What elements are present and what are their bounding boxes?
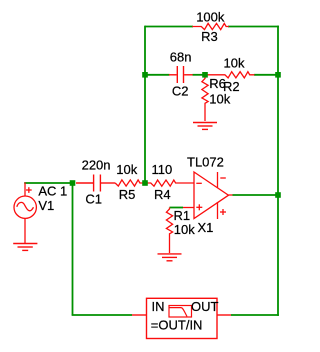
wire op-amp output to right rail <box>233 194 279 196</box>
junction at right rail output <box>275 192 281 198</box>
V1 top lead <box>24 182 26 196</box>
ground below R1 <box>158 254 182 261</box>
resistor R1 10k vertical <box>166 208 172 254</box>
wire right rail vertical <box>277 26 279 316</box>
svg-text:220n: 220n <box>82 158 111 173</box>
svg-text:68n: 68n <box>170 50 192 65</box>
wire top row A from R3 to right rail <box>228 26 279 28</box>
wire bottom row left <box>72 314 132 316</box>
plus sign inside <box>196 206 202 208</box>
wire left rail 2 vertical <box>72 183 74 315</box>
svg-text:10k: 10k <box>174 222 195 237</box>
wire top row A from mid rail to R3 <box>145 26 193 28</box>
V1 circle body <box>14 196 36 218</box>
svg-text:C2: C2 <box>172 83 189 98</box>
junction at C1 input node <box>70 180 76 186</box>
svg-text:R3: R3 <box>201 29 218 44</box>
OUT/IN measurement block <box>132 298 231 338</box>
plus sign bottom power <box>220 211 226 213</box>
ground below V1 <box>13 244 37 251</box>
svg-text:X1: X1 <box>198 220 214 235</box>
svg-text:10k: 10k <box>209 91 230 106</box>
minus sign top power <box>220 177 226 179</box>
wire main row: V1 to C1 junction <box>24 182 72 184</box>
capacitor C2 68n <box>169 66 193 83</box>
junction at C2/R6/R2 node <box>202 72 208 78</box>
junction at right rail row B <box>275 72 281 78</box>
svg-text:TL072: TL072 <box>187 154 224 169</box>
svg-text:R5: R5 <box>119 187 136 202</box>
wire op-amp plus input to R1 <box>170 207 184 209</box>
svg-text:10k: 10k <box>116 162 137 177</box>
svg-text:IN: IN <box>152 299 165 314</box>
op-amp X1 TL072 <box>183 172 233 219</box>
wire row B: C2 to junction <box>193 74 206 76</box>
minus sign inside <box>196 182 202 184</box>
svg-text:R1: R1 <box>174 208 191 223</box>
resistor R6 10k vertical <box>202 75 208 121</box>
resistor R4 110 <box>145 180 194 186</box>
block icon: transfer curve <box>169 306 192 318</box>
svg-text:10k: 10k <box>224 55 245 70</box>
svg-text:AC 1: AC 1 <box>38 184 67 199</box>
V1 sine symbol <box>17 202 34 210</box>
wire row B: R2 to right rail <box>254 74 278 76</box>
wire bottom row right <box>231 314 279 316</box>
wire left mid rail vertical <box>144 26 146 183</box>
wire row B: rail to C2 <box>145 74 170 76</box>
V1 bottom lead <box>24 218 26 243</box>
AC source V1 <box>14 182 36 243</box>
resistor R2 10k <box>207 72 255 78</box>
junction at R5/R4 node <box>142 180 148 186</box>
ground below R6 <box>193 123 217 130</box>
capacitor C1 220n <box>76 175 115 192</box>
svg-text:OUT: OUT <box>191 299 219 314</box>
svg-text:100k: 100k <box>196 9 225 24</box>
svg-text:C1: C1 <box>85 192 102 207</box>
svg-text:110: 110 <box>152 162 173 177</box>
svg-text:=OUT/IN: =OUT/IN <box>151 318 203 333</box>
resistor R3 100k <box>192 23 229 29</box>
resistor R5 10k <box>115 180 145 186</box>
svg-text:V1: V1 <box>38 198 54 213</box>
svg-text:R4: R4 <box>154 187 171 202</box>
V1 plus polarity mark <box>26 189 32 191</box>
junction at rail/C2 node <box>142 72 148 78</box>
